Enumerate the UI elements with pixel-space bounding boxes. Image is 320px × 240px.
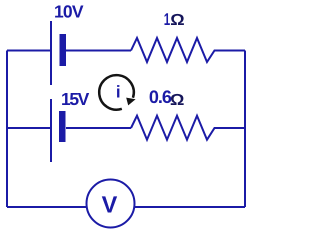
svg-text:15V: 15V [61,89,90,109]
svg-text:10V: 10V [54,1,84,21]
svg-text:Ω: Ω [170,92,185,109]
svg-text:i: i [116,82,121,101]
svg-text:Ω: Ω [170,12,185,29]
svg-text:1: 1 [164,10,170,29]
svg-text:V: V [102,192,118,218]
svg-text:0.6: 0.6 [149,87,172,107]
